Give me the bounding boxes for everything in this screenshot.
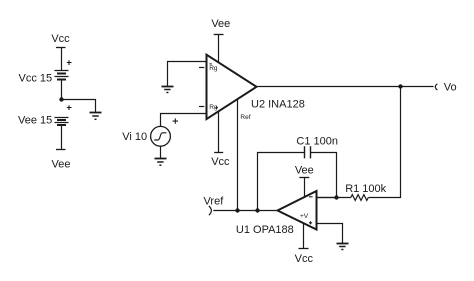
connector Vo [435,84,437,90]
pin label plus (U1) [309,221,312,224]
Vee rail T-bar [56,149,66,151]
op-amp U2 INA128 triangle [207,55,257,119]
wire U2 minus input to ground [168,62,207,87]
pin label plus (U2 inside bottom) [215,106,218,109]
svg-text:Vcc: Vcc [211,156,230,168]
wire U2 Vcc pin [218,111,220,152]
op-amp U1 OPA188 triangle [278,191,317,230]
pin label minus (U2 inside top) [209,63,212,65]
wire U2 output to Vo [257,86,434,88]
wire U2 Ref pin to Vref net [237,100,239,211]
Vcc supply T-bar (U2) [214,152,223,154]
wire battery V2 to Vee T-bar [61,126,63,150]
pin label minus (U1) [309,196,313,198]
svg-text:+V: +V [300,213,309,220]
svg-text:Vee: Vee [211,18,230,30]
battery V1 plus sign [67,60,72,65]
svg-text:U2 INA128: U2 INA128 [251,99,305,111]
ground (U2 minus input) [162,86,174,88]
resistor R1 100k [351,195,368,201]
wire battery V1 to junction [61,80,63,100]
pin stub Rg bottom (U2) [199,106,204,108]
junction dot left rail [59,97,63,101]
source V3 waveform [154,133,166,140]
svg-text:Vcc: Vcc [295,253,314,265]
source V3 Vi circle [151,126,171,146]
wire C1 left branch [258,153,305,211]
ground (left rail) [90,112,102,114]
Vee supply T-bar (U1) [299,177,309,179]
wire U1 plus input to ground [317,224,343,244]
wire U2 plus input from Vi [161,114,207,127]
wire U1 minus input [317,197,337,199]
svg-text:Ref: Ref [240,114,250,121]
ground (U1 plus input) [337,243,349,245]
Vcc supply T-bar (U1) [299,248,309,250]
svg-text:Vo: Vo [444,81,457,93]
wire junction to ground [62,100,96,113]
wire Vref net [213,210,277,212]
wire Vi to ground [160,146,162,158]
battery V1 Vcc 15 [55,71,69,77]
wire feedback Vo to R1 [368,87,400,198]
svg-text:Vcc 15: Vcc 15 [19,73,53,85]
svg-text:R1 100k: R1 100k [345,183,386,195]
Vcc rail T-bar [56,47,66,49]
junction dot C1/R1/minus input [334,195,338,199]
svg-text:Rg: Rg [209,65,218,72]
source Vi plus sign [173,118,178,123]
svg-text:U1 OPA188: U1 OPA188 [236,224,294,236]
svg-text:Vcc: Vcc [51,33,70,45]
Vee supply T-bar (U2) [214,34,224,36]
battery V2 plus sign [67,105,72,110]
wire Vcc T-bar to battery V1 [61,48,63,71]
wire Vee pin U2 [218,35,220,64]
svg-text:Vee: Vee [52,159,71,171]
svg-text:Vref: Vref [204,195,225,207]
wire U1 Vcc pin [303,223,305,249]
junction dot output/feedback [398,84,402,88]
wire C1 right branch [311,153,337,198]
svg-text:Vi 10: Vi 10 [122,131,147,143]
capacitor C1 plates [305,146,311,158]
wire U1 Vee pin [304,178,306,199]
ground (Vi source) [155,158,167,160]
connector Vref [209,206,212,215]
junction dot Ref/Vref [235,208,239,212]
svg-text:Vee: Vee [295,165,314,177]
wire R1 to minus input node [317,197,351,199]
pin stub Rg top (U2) [199,67,204,69]
svg-text:C1 100n: C1 100n [296,136,338,148]
junction dot C1/Vref [255,208,259,212]
battery V2 Vee 15 [55,118,69,123]
svg-text:Vee 15: Vee 15 [18,115,52,127]
